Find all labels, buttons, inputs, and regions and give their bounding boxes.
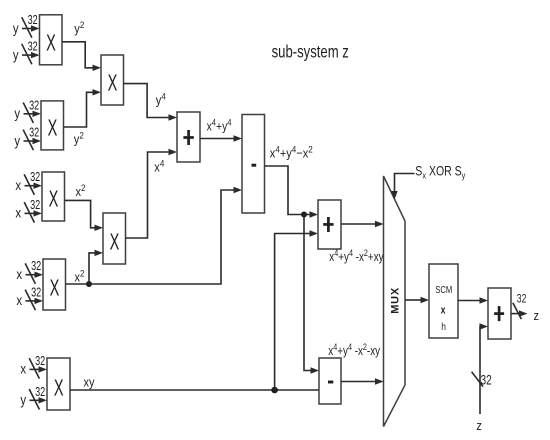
svg-text:32: 32 [31, 286, 41, 300]
svg-text:X: X [46, 30, 56, 56]
wire X4 to X5 [65, 200, 104, 231]
svg-text:x: x [15, 178, 21, 193]
X2 input wire y (bottom) [24, 138, 42, 144]
multiplier X6 [43, 259, 66, 310]
X4 input wire x (top) [25, 183, 43, 189]
svg-text:Sx XOR Sy: Sx XOR Sy [415, 163, 466, 180]
wire A1 to S1 upper input [200, 135, 242, 141]
junction dot on xy wire [271, 387, 278, 394]
svg-text:x2: x2 [75, 268, 85, 285]
svg-text:y: y [14, 106, 20, 121]
multiplier X4 [42, 172, 65, 221]
multiplier X5 [103, 213, 126, 264]
junction dot on S1 output [301, 212, 307, 218]
svg-text:z: z [476, 418, 482, 433]
svg-text:y2: y2 [74, 19, 84, 36]
wire X5 to A1 lower input [126, 149, 178, 238]
select signal Sx XOR Sy [391, 174, 414, 200]
bus slash 32 on X7 bottom input [29, 385, 45, 409]
bus slash 32 on X2 top input [23, 99, 39, 123]
svg-text:x4+y4: x4+y4 [207, 117, 232, 134]
svg-text:x2: x2 [76, 182, 86, 199]
svg-text:x4+y4 -x2-xy: x4+y4 -x2-xy [328, 341, 380, 358]
svg-text:x4+y4−x2: x4+y4−x2 [270, 144, 313, 161]
wire junction right and up to subtractor S1 lower input [89, 187, 242, 284]
svg-text:x: x [15, 206, 21, 221]
bus slash 32 on X1 bottom input [22, 40, 38, 64]
junction dot on X6 output [86, 281, 92, 287]
adder A2 [318, 200, 341, 249]
svg-text:sub-system z: sub-system z [272, 43, 349, 62]
multiplier X3 [101, 55, 124, 105]
wire X1 to X3 [62, 42, 101, 71]
svg-text:X: X [50, 275, 60, 301]
svg-text:x4+y4 -x2+xy: x4+y4 -x2+xy [329, 247, 383, 264]
subtractor S2 [319, 358, 341, 404]
wire SCM output to adder A3 [458, 297, 488, 303]
svg-text:x: x [20, 362, 26, 377]
svg-text:y: y [13, 21, 19, 36]
X4 input wire x (bottom) [25, 210, 43, 216]
svg-text:y: y [20, 393, 26, 408]
svg-text:32: 32 [481, 372, 493, 388]
svg-text:x: x [16, 267, 22, 282]
svg-text:X: X [54, 375, 64, 401]
wire A2 output to MUX [341, 221, 384, 227]
svg-text:32: 32 [28, 40, 38, 54]
svg-text:y: y [14, 133, 20, 148]
wire X3 to A1 upper input [124, 84, 178, 121]
svg-text:y: y [13, 48, 19, 63]
svg-text:y2: y2 [74, 130, 84, 147]
wire X6 output to junction [66, 283, 90, 285]
input z wire from bottom [480, 323, 489, 414]
svg-text:32: 32 [30, 171, 40, 185]
bus slash 32 on X6 top input [25, 260, 41, 284]
svg-text:X: X [110, 229, 120, 255]
svg-text:32: 32 [35, 385, 45, 399]
X2 input wire y (top) [24, 111, 42, 117]
svg-text:x: x [16, 293, 22, 308]
X6 input wire x (top) [26, 272, 44, 278]
svg-text:SCM: SCM [435, 284, 452, 295]
wire X7 output xy to S2 [70, 389, 319, 391]
svg-text:z: z [534, 308, 540, 323]
X1 input wire y (bottom) [22, 52, 40, 58]
svg-text:X: X [49, 186, 59, 212]
X1 input wire y (top) [22, 25, 40, 31]
X7 input wire y (bottom) [30, 397, 48, 403]
svg-text:X: X [108, 70, 118, 96]
adder A1 [177, 112, 200, 162]
svg-text:x4: x4 [154, 158, 164, 175]
bus slash 32 on X1 top input [22, 14, 38, 38]
subtractor S1 [242, 115, 265, 214]
wire S1 output to A2 upper input [265, 166, 319, 218]
svg-text:32: 32 [29, 99, 39, 113]
adder A3 [488, 288, 511, 339]
X7 input wire x (top) [30, 366, 48, 372]
bus slash 32 on X4 top input [24, 171, 40, 195]
svg-text:y4: y4 [156, 91, 166, 108]
wire MUX output to SCM [405, 297, 429, 303]
svg-text:32: 32 [31, 260, 41, 274]
wire junction down to S2 upper input [304, 215, 319, 374]
svg-text:MUX: MUX [390, 287, 402, 314]
multiplier X1 [40, 15, 63, 65]
wire S2 output to MUX [341, 378, 384, 384]
svg-text:xy: xy [84, 374, 95, 389]
svg-text:X: X [48, 115, 58, 141]
svg-text:h: h [441, 321, 446, 333]
svg-text:32: 32 [35, 354, 45, 368]
svg-text:32: 32 [28, 14, 38, 28]
bus slash 32 on X4 bottom input [24, 198, 40, 222]
multiplier X2 [41, 101, 64, 150]
bus slash 32 on X2 bottom input [23, 126, 39, 150]
svg-text:32: 32 [29, 126, 39, 140]
bus slash 32 on X6 bottom input [25, 286, 41, 310]
wire X2 to X3 [64, 89, 102, 127]
SCM block [429, 264, 458, 338]
svg-text:x: x [441, 304, 446, 316]
bus slash 32 on z output [513, 294, 527, 320]
bus slash 32 on z input [472, 372, 492, 388]
output wire z [511, 310, 528, 316]
bus slash 32 on X7 top input [29, 354, 45, 378]
X6 input wire x (bottom) [26, 298, 44, 304]
wire junction up to A2 lower input [275, 230, 318, 390]
MUX trapezoid [384, 176, 406, 427]
multiplier X7 [47, 358, 70, 410]
svg-text:32: 32 [517, 294, 527, 307]
svg-text:32: 32 [30, 198, 40, 212]
wire junction up to X5 lower input [89, 250, 103, 284]
